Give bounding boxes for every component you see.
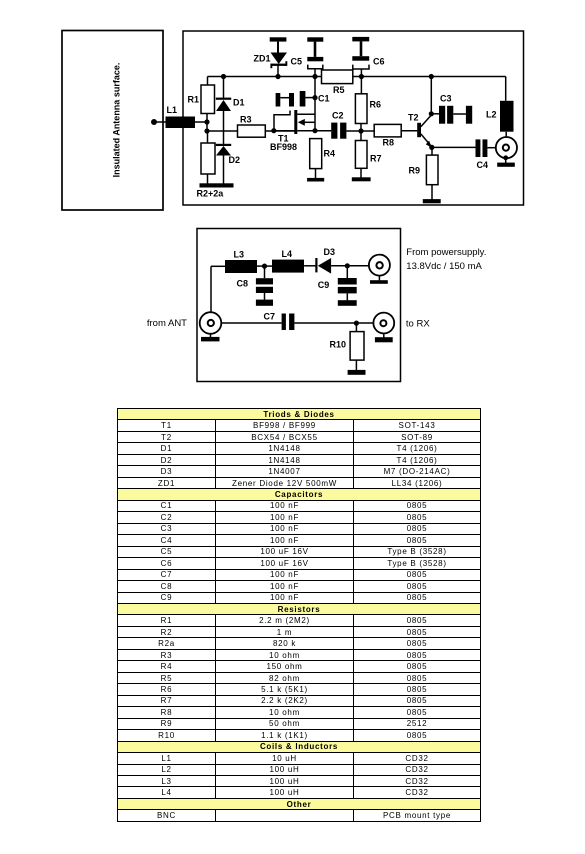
svg-text:L2: L2 [486,110,497,120]
svg-text:R4: R4 [324,149,336,159]
svg-text:R9: R9 [409,166,421,176]
svg-text:L3: L3 [234,250,245,260]
svg-text:C5: C5 [291,57,303,67]
svg-text:C6: C6 [373,57,385,67]
svg-text:ZD1: ZD1 [254,54,271,64]
svg-text:L1: L1 [167,105,178,115]
svg-text:D1: D1 [233,98,245,108]
svg-text:R8: R8 [383,138,395,148]
svg-text:L4: L4 [282,249,293,259]
svg-text:R5: R5 [333,85,345,95]
svg-text:BF998: BF998 [270,142,297,152]
svg-text:C1: C1 [318,94,330,104]
svg-text:From powersupply.: From powersupply. [406,247,486,258]
svg-text:D2: D2 [229,155,241,165]
svg-text:R6: R6 [370,100,382,110]
svg-text:C3: C3 [440,94,452,104]
svg-text:13.8Vdc / 150 mA: 13.8Vdc / 150 mA [406,261,482,272]
svg-text:R3: R3 [240,115,252,125]
svg-text:C4: C4 [477,160,489,170]
svg-text:to RX: to RX [406,319,430,330]
svg-text:R2+2a: R2+2a [197,189,225,199]
svg-text:C7: C7 [264,312,276,322]
svg-text:R10: R10 [330,340,347,350]
svg-text:D3: D3 [324,247,336,257]
svg-text:R7: R7 [370,154,382,164]
svg-text:T2: T2 [408,113,419,123]
svg-text:Insulated Antenna surface.: Insulated Antenna surface. [111,63,121,178]
svg-text:C9: C9 [318,280,330,290]
svg-text:from ANT: from ANT [147,318,187,329]
svg-text:C8: C8 [237,279,249,289]
svg-text:R1: R1 [188,95,200,105]
svg-text:C2: C2 [332,111,344,121]
